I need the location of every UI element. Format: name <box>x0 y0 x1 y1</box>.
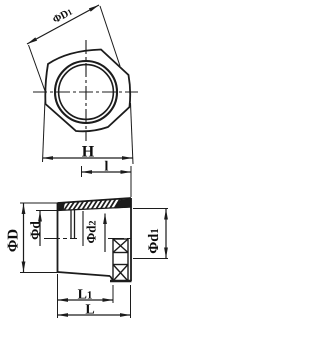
dim phid2 line <box>104 214 106 253</box>
dim phiD1 extension line right <box>100 6 120 66</box>
hatch solid left end <box>58 203 65 211</box>
dim L1 arrow left <box>58 298 69 302</box>
bottom step to box <box>110 276 113 281</box>
hatch solid right end <box>115 199 131 208</box>
dim phiD arrow down <box>22 262 26 273</box>
body left edge <box>57 203 59 272</box>
dim L1 arrow right <box>103 298 114 302</box>
box bottom thick line <box>110 280 132 282</box>
dim phid arrow up <box>38 211 42 222</box>
dim L1 line <box>58 299 114 301</box>
dim phiD: ext top <box>20 202 58 204</box>
dim phiD1 arrow lower-left <box>26 37 37 45</box>
dim H line <box>43 157 133 159</box>
dim phid1 arrow down <box>164 248 168 259</box>
dim H arrow right <box>122 156 133 160</box>
dim phiD arrow up <box>22 204 26 215</box>
dim phid2 arrow up <box>103 214 107 225</box>
dim phiD1 line <box>27 5 99 44</box>
dim H extension right <box>131 103 134 164</box>
dim phid: ext top <box>36 210 58 212</box>
axis centerline <box>44 238 134 240</box>
dim phid1 line <box>165 209 167 258</box>
horizontal centerline top view <box>33 91 138 93</box>
vertical centerline top view <box>85 40 87 141</box>
X-box column <box>113 239 128 281</box>
dim phiD: ext bottom <box>20 272 58 274</box>
dim I: ext right <box>130 166 132 197</box>
dim I line <box>82 171 132 173</box>
dim L arrow right <box>120 313 131 317</box>
dim I: ext left <box>81 166 83 177</box>
svg-text:L1: L1 <box>78 288 93 303</box>
dim L: ext left (shared) <box>57 274 59 318</box>
dim phiD1 extension line left <box>29 45 46 91</box>
svg-text:L: L <box>85 303 94 318</box>
dim phid1 arrow up <box>164 209 168 220</box>
inner circle (thread minor dia) <box>59 65 114 120</box>
svg-text:Φd1: Φd1 <box>146 228 162 254</box>
outer circle (thread major dia) <box>55 61 117 123</box>
dim L arrow left <box>58 313 69 317</box>
body bottom face <box>58 272 111 276</box>
dim H arrow left <box>43 156 54 160</box>
dim I arrow right <box>121 170 132 174</box>
hexagon outline (top view) <box>45 50 130 132</box>
dim I arrow left <box>82 170 93 174</box>
body right edge <box>130 198 132 281</box>
dim L1: ext right <box>112 285 114 303</box>
bore line (hatch band bottom) <box>58 207 132 211</box>
dim phid1: ext bottom <box>133 258 168 260</box>
dim H extension left <box>43 100 46 162</box>
dim phiD1 arrow upper-right <box>89 3 100 11</box>
svg-text:ΦD: ΦD <box>6 229 22 252</box>
dim phiD line <box>23 204 25 273</box>
body top face <box>58 198 132 203</box>
bore step verticals <box>70 210 72 238</box>
dim L line <box>58 314 131 316</box>
svg-text:Φd: Φd <box>28 221 43 240</box>
svg-text:l: l <box>105 160 109 175</box>
dim L: ext right <box>130 285 132 318</box>
dim phid line <box>39 211 41 246</box>
svg-text:H: H <box>82 144 95 161</box>
thread end line <box>82 211 84 246</box>
hatch band <box>60 199 121 211</box>
dim phid1: ext top <box>133 208 168 210</box>
